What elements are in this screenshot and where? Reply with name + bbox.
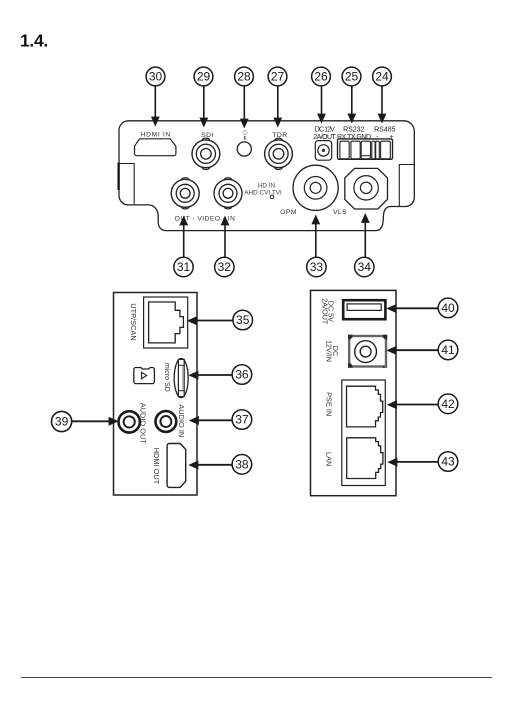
OPM label <box>280 209 297 216</box>
VIDEO OUT BNC connector <box>171 178 199 209</box>
leader arrow 32 <box>221 216 230 258</box>
DC 12V/IN jack <box>348 335 387 368</box>
svg-text:42: 42 <box>441 397 455 411</box>
svg-text:33: 33 <box>310 260 324 274</box>
leader arrow 25 <box>347 86 356 124</box>
HDMI IN connector <box>135 139 176 156</box>
HD LED dot <box>270 195 274 199</box>
HDMI OUT label <box>152 448 161 485</box>
callout 42 <box>438 394 458 414</box>
svg-text:40: 40 <box>441 301 455 315</box>
VLS connector <box>345 168 388 209</box>
HDMI OUT connector <box>167 444 186 488</box>
callout 37 <box>232 410 252 430</box>
AUDIO IN label <box>177 404 186 437</box>
svg-text:RS485: RS485 <box>374 127 396 134</box>
OUT - VIDEO - IN label <box>175 215 236 222</box>
svg-text:41: 41 <box>441 343 455 357</box>
HDMI IN label <box>141 132 171 139</box>
leader arrow 41 <box>386 346 438 355</box>
svg-text:OPM: OPM <box>280 209 297 216</box>
svg-text:34: 34 <box>358 260 372 274</box>
HD IN AHD CVI TVI label <box>244 183 282 197</box>
callout 30 <box>146 67 165 86</box>
svg-text:LAN: LAN <box>324 452 333 466</box>
svg-text:micro SD: micro SD <box>163 363 170 392</box>
svg-text:30: 30 <box>149 70 163 84</box>
AUDIO OUT connector <box>119 411 140 432</box>
leader arrow 24 <box>378 86 387 124</box>
RS232 RX TX GND label <box>337 127 371 141</box>
svg-text:DC 12V: DC 12V <box>315 127 335 134</box>
top panel outline <box>119 121 414 231</box>
micro SD slot <box>174 358 188 397</box>
callout 25 <box>342 67 361 86</box>
callout 24 <box>373 67 392 86</box>
callout 34 <box>355 257 374 276</box>
SDI BNC connector <box>192 138 220 169</box>
leader arrow 31 <box>179 216 188 258</box>
svg-text:PSE IN: PSE IN <box>324 392 333 416</box>
section heading 1.4. <box>20 31 48 51</box>
leader arrow 34 <box>361 213 370 257</box>
TDR BNC connector <box>265 138 293 169</box>
UTP/SCAN label <box>129 303 138 340</box>
leader arrow 39 <box>72 417 119 426</box>
svg-text:25: 25 <box>345 70 359 84</box>
callout 26 <box>312 67 331 86</box>
leader arrow 43 <box>387 458 438 467</box>
svg-text:38: 38 <box>235 457 249 471</box>
svg-text:AUDIO OUT: AUDIO OUT <box>139 403 148 445</box>
SD card icon <box>134 368 155 384</box>
OPM connector <box>293 165 338 210</box>
leader arrow 36 <box>188 371 232 380</box>
svg-text:UTP/SCAN: UTP/SCAN <box>129 303 138 340</box>
USB port <box>343 300 385 319</box>
leader arrow 28 <box>240 86 249 129</box>
callout 32 <box>215 257 234 276</box>
callout 28 <box>235 67 254 86</box>
svg-text:26: 26 <box>314 70 328 84</box>
callout 40 <box>438 298 458 318</box>
callout 39 <box>52 411 72 431</box>
svg-text:AHD CVI TVI: AHD CVI TVI <box>244 190 282 197</box>
VIDEO IN BNC connector <box>214 178 242 209</box>
svg-text:39: 39 <box>55 415 69 429</box>
SDI label <box>201 132 214 139</box>
svg-text:32: 32 <box>218 260 232 274</box>
headphone button <box>237 142 251 156</box>
svg-text:35: 35 <box>236 313 250 327</box>
TDR label <box>272 132 287 139</box>
AUDIO OUT label <box>139 403 148 445</box>
DC 12V/IN label <box>325 340 340 362</box>
callout 31 <box>174 257 193 276</box>
network jacks outer frame <box>342 380 386 486</box>
svg-text:2A/OUT: 2A/OUT <box>313 134 336 141</box>
LAN RJ45 jack <box>347 438 383 479</box>
svg-text:AUDIO IN: AUDIO IN <box>177 404 186 437</box>
callout 33 <box>307 257 326 276</box>
svg-text:RS232: RS232 <box>343 127 365 134</box>
footer rule <box>21 677 492 679</box>
svg-text:1.4.: 1.4. <box>20 31 48 51</box>
leader arrow 33 <box>311 215 320 258</box>
right panel outline <box>311 290 397 495</box>
PSE IN label <box>324 392 333 416</box>
svg-text:43: 43 <box>441 455 455 469</box>
svg-text:31: 31 <box>177 260 191 274</box>
leader arrow 38 <box>188 461 232 470</box>
svg-text:24: 24 <box>375 70 389 84</box>
svg-text:RX TX GND: RX TX GND <box>337 134 371 141</box>
leader arrow 40 <box>386 304 438 313</box>
leader arrow 26 <box>317 86 326 124</box>
LAN label <box>324 452 333 466</box>
headphone indicator icon <box>243 131 247 140</box>
VLS label <box>333 209 347 216</box>
micro SD label <box>163 363 170 392</box>
callout 36 <box>232 365 252 385</box>
callout 38 <box>232 455 252 475</box>
UTP/SCAN RJ45 outer frame <box>144 297 188 348</box>
callout 41 <box>438 340 458 360</box>
terminal block <box>338 139 393 159</box>
svg-text:HDMI OUT: HDMI OUT <box>152 448 161 485</box>
leader arrow 35 <box>187 316 233 325</box>
leader arrow 37 <box>189 416 232 425</box>
leader arrow 29 <box>199 86 208 128</box>
DC 12V 2A/OUT label <box>313 127 336 141</box>
svg-text:36: 36 <box>235 368 249 382</box>
UTP/SCAN RJ45 jack <box>149 302 184 343</box>
svg-text:12V/IN: 12V/IN <box>325 340 334 362</box>
PSE IN RJ45 jack <box>347 386 383 427</box>
top panel left inner step <box>119 164 134 205</box>
RS485 - + label <box>374 127 396 141</box>
svg-text:2A/OUT: 2A/OUT <box>321 298 330 325</box>
svg-text:VLS: VLS <box>333 209 347 216</box>
top panel left edge thick seam <box>117 163 119 190</box>
callout 43 <box>438 452 458 472</box>
svg-text:HDMI IN: HDMI IN <box>141 132 171 139</box>
leader arrow 27 <box>273 86 282 128</box>
svg-text:27: 27 <box>271 70 285 84</box>
left panel outline <box>114 293 198 496</box>
svg-text:29: 29 <box>197 70 211 84</box>
callout 29 <box>194 67 213 86</box>
leader arrow 30 <box>151 86 160 127</box>
callout 35 <box>233 310 253 330</box>
leader arrow 42 <box>387 400 438 409</box>
top panel right inner step <box>399 165 414 207</box>
svg-text:37: 37 <box>235 413 249 427</box>
svg-text:28: 28 <box>237 70 251 84</box>
svg-text:HD IN: HD IN <box>258 183 276 190</box>
callout 27 <box>268 67 287 86</box>
DC 5V 2A/OUT label <box>321 298 336 325</box>
AUDIO IN connector <box>156 411 177 432</box>
DC 12V barrel jack <box>315 141 331 161</box>
